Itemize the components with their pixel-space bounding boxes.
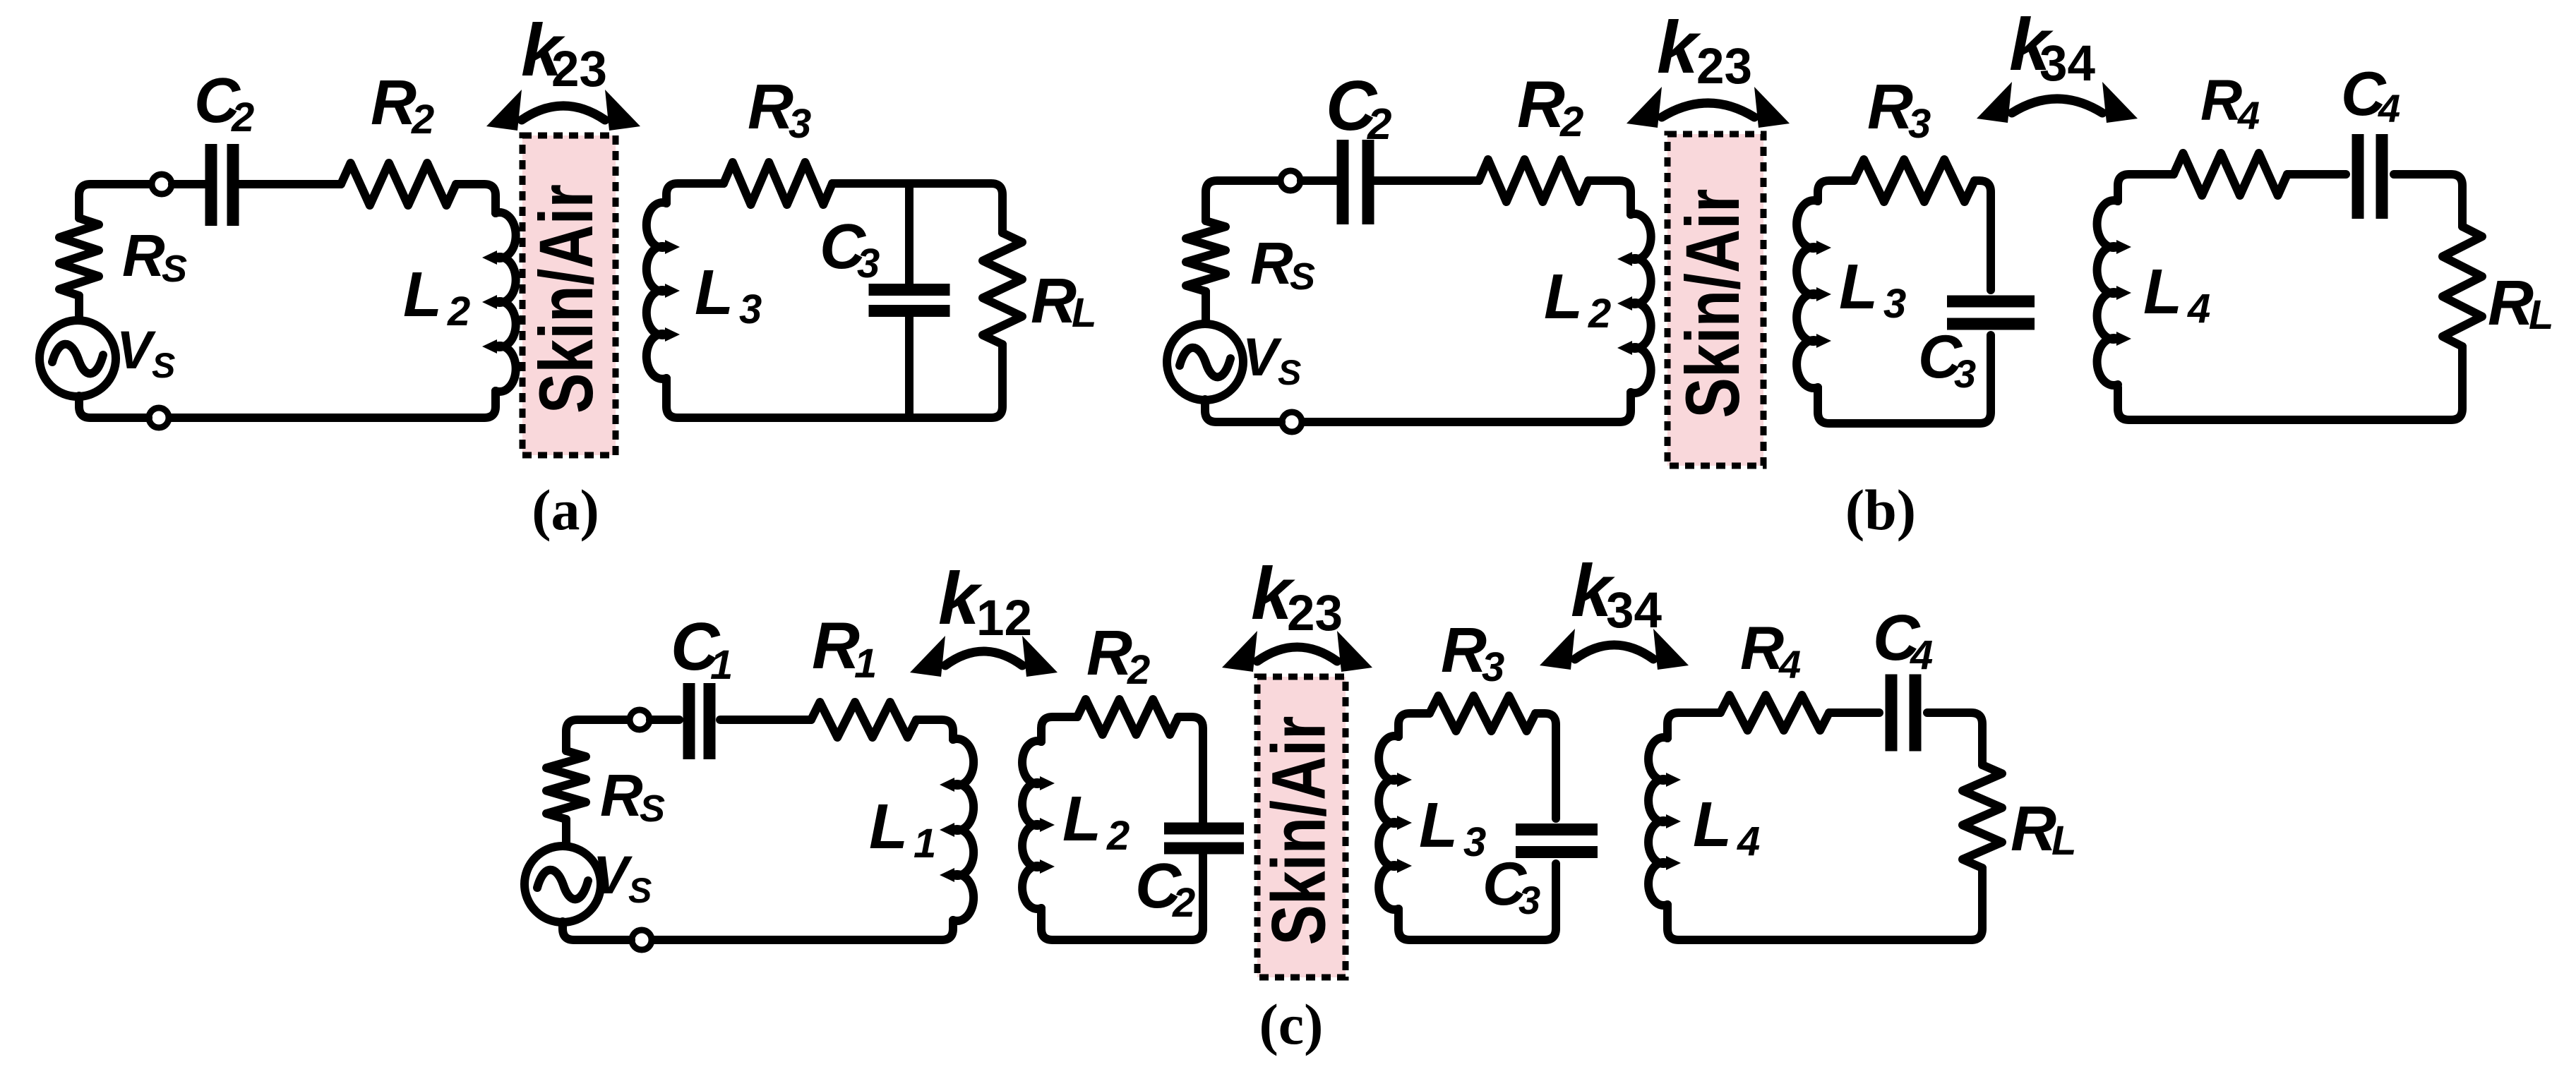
inductor L4 (c) bbox=[1648, 737, 1667, 905]
node terminal bottom (b) bbox=[1282, 412, 1302, 432]
source VS (c) bbox=[525, 846, 601, 922]
wire L4 to R4 (c) bbox=[1667, 713, 1720, 738]
svg-text:k: k bbox=[1657, 6, 1701, 89]
svg-text:Skin/Air: Skin/Air bbox=[524, 184, 609, 414]
svg-text:3: 3 bbox=[789, 101, 811, 147]
wire C4 to RL (c) bbox=[1927, 713, 1982, 765]
resistor R4 (b) bbox=[2174, 153, 2287, 195]
wire L2 to R2 (c) bbox=[1041, 717, 1077, 742]
svg-text:3: 3 bbox=[857, 241, 880, 286]
wire bottom terminal to Vs (a) bbox=[79, 396, 148, 418]
wire R3 to top-right corner (a) bbox=[832, 183, 1002, 233]
svg-text:1: 1 bbox=[913, 821, 936, 867]
svg-text:34: 34 bbox=[2039, 36, 2095, 92]
resistor R4 (c) bbox=[1720, 695, 1829, 730]
wire R3 to C3 (b) bbox=[1975, 181, 1991, 290]
resistor RL (a) bbox=[983, 233, 1022, 344]
svg-text:L: L bbox=[2051, 818, 2076, 864]
node terminal top (c) bbox=[630, 710, 649, 730]
wire C2 to R2 (b) bbox=[1373, 176, 1479, 185]
wire R4 to C4 (c) bbox=[1829, 708, 1879, 717]
resistor RS (b) bbox=[1186, 221, 1226, 291]
svg-text:R: R bbox=[1250, 230, 1293, 296]
capacitor C4 (b) bbox=[2358, 134, 2382, 219]
svg-text:23: 23 bbox=[1696, 39, 1752, 95]
svg-text:4: 4 bbox=[2378, 86, 2400, 131]
svg-text:4: 4 bbox=[1737, 819, 1760, 864]
svg-text:(c): (c) bbox=[1259, 992, 1323, 1056]
skin/air boundary (a) bbox=[522, 135, 616, 455]
svg-text:V: V bbox=[1242, 327, 1282, 387]
svg-text:R: R bbox=[812, 608, 860, 682]
wire L2 to bottom terminal (b) bbox=[1302, 392, 1631, 422]
svg-text:2: 2 bbox=[1106, 813, 1130, 859]
coupling k34 (b) bbox=[2012, 99, 2102, 113]
source VS (b) bbox=[1167, 324, 1243, 400]
inductor L4 (b) bbox=[2097, 200, 2118, 385]
svg-text:Skin/Air: Skin/Air bbox=[1670, 189, 1755, 418]
source VS (a) bbox=[40, 320, 116, 397]
wire R3 to C3 (c) bbox=[1535, 713, 1556, 819]
wire L1 to bottom terminal (c) bbox=[652, 920, 953, 940]
wire C2 to R2 (a) bbox=[239, 180, 341, 188]
wire bottom terminal to Vs (c) bbox=[563, 922, 631, 940]
wire R2 to L2 (a) bbox=[456, 184, 496, 213]
svg-text:4: 4 bbox=[1778, 642, 1801, 687]
wire terminal to C1 (c) bbox=[650, 716, 679, 724]
svg-text:R: R bbox=[748, 72, 793, 143]
svg-text:12: 12 bbox=[976, 591, 1032, 646]
inductor L1 (c) bbox=[953, 739, 974, 921]
coupling k34 (c) bbox=[1575, 645, 1653, 659]
wire loop c1 left (c) bbox=[566, 720, 629, 847]
wire C1 to R1 (c) bbox=[720, 716, 811, 724]
node terminal bottom (a) bbox=[149, 408, 169, 428]
svg-text:34: 34 bbox=[1606, 583, 1662, 639]
wire RL to bottom (c) bbox=[1667, 868, 1982, 940]
svg-text:4: 4 bbox=[2187, 286, 2210, 332]
inductor L2 (c) bbox=[1022, 741, 1041, 909]
node terminal top (a) bbox=[152, 174, 172, 194]
svg-text:S: S bbox=[640, 788, 665, 830]
resistor RS (a) bbox=[59, 218, 99, 296]
resistor R3 (c) bbox=[1430, 696, 1535, 731]
coupling k23 (c) bbox=[1257, 647, 1337, 661]
resistor R2 (b) bbox=[1479, 159, 1588, 202]
svg-text:R: R bbox=[122, 222, 165, 289]
svg-text:3: 3 bbox=[1908, 101, 1931, 147]
svg-text:L: L bbox=[869, 792, 908, 862]
coupling k23 (a) bbox=[522, 106, 605, 120]
svg-text:2: 2 bbox=[447, 289, 470, 334]
wire bottom terminal to Vs (b) bbox=[1205, 399, 1281, 422]
svg-text:R: R bbox=[1441, 615, 1487, 686]
capacitor C3 (b) bbox=[1947, 301, 2035, 324]
svg-text:S: S bbox=[152, 346, 175, 385]
resistor RS (c) bbox=[546, 751, 586, 819]
wire terminal to C2 (b) bbox=[1301, 176, 1338, 185]
wire L2 to bottom terminal (a) bbox=[169, 391, 496, 418]
resistor RL (c) bbox=[1963, 765, 2002, 868]
wire L4 to R4 (b) bbox=[2118, 174, 2174, 201]
svg-text:23: 23 bbox=[551, 42, 607, 97]
capacitor C1 (c) bbox=[689, 683, 709, 759]
svg-text:S: S bbox=[1278, 353, 1301, 392]
wire R4 to C4 (b) bbox=[2287, 170, 2346, 179]
wire R2 to L2 (b) bbox=[1588, 181, 1631, 215]
wire terminal to C2 (a) bbox=[172, 180, 205, 188]
resistor R3 (a) bbox=[724, 162, 832, 205]
svg-text:2: 2 bbox=[1127, 647, 1150, 693]
wire loop a1 left: Vs to top-left corner to terminal bbox=[79, 184, 151, 322]
svg-text:3: 3 bbox=[739, 286, 762, 332]
svg-text:R: R bbox=[1517, 67, 1565, 141]
svg-text:Skin/Air: Skin/Air bbox=[1256, 716, 1341, 946]
wire L3 to R3 (b) bbox=[1818, 181, 1854, 201]
capacitor C3 branch bottom (a) bbox=[905, 316, 913, 418]
resistor R1 (c) bbox=[811, 702, 916, 737]
coupling k12 (c) bbox=[945, 651, 1022, 665]
svg-text:(b): (b) bbox=[1845, 478, 1916, 542]
wire C2 to bottom (c) bbox=[1041, 853, 1203, 940]
svg-text:R: R bbox=[2200, 68, 2242, 133]
svg-text:1: 1 bbox=[854, 641, 877, 687]
svg-text:2: 2 bbox=[411, 97, 434, 143]
resistor R2 (a) bbox=[341, 163, 456, 205]
wire L3 to R3 (a) bbox=[666, 183, 724, 203]
svg-text:4: 4 bbox=[1910, 632, 1933, 678]
inductor L3 (c) bbox=[1379, 736, 1398, 910]
svg-text:R: R bbox=[371, 68, 417, 138]
svg-text:(a): (a) bbox=[532, 478, 599, 542]
svg-text:S: S bbox=[628, 871, 652, 910]
svg-text:R: R bbox=[600, 762, 643, 828]
svg-text:2: 2 bbox=[1172, 880, 1195, 926]
svg-text:L: L bbox=[2143, 257, 2182, 327]
svg-text:S: S bbox=[1290, 255, 1315, 298]
svg-text:R: R bbox=[2488, 268, 2534, 339]
wire L3 to R3 (c) bbox=[1398, 713, 1430, 737]
svg-text:2: 2 bbox=[1367, 100, 1391, 149]
skin/air boundary (b) bbox=[1667, 134, 1763, 466]
resistor R3 (b) bbox=[1854, 159, 1975, 202]
svg-text:2: 2 bbox=[231, 95, 254, 140]
svg-text:2: 2 bbox=[1588, 291, 1611, 337]
svg-text:L: L bbox=[1839, 252, 1878, 322]
svg-text:1: 1 bbox=[710, 642, 733, 688]
svg-text:4: 4 bbox=[2237, 93, 2260, 138]
resistor R2 (c) bbox=[1077, 699, 1178, 735]
capacitor C3 branch top (a) bbox=[905, 183, 913, 284]
coupling k23 (b) bbox=[1662, 103, 1754, 117]
inductor L2 (a) bbox=[496, 212, 516, 392]
capacitor C3 (a) bbox=[869, 290, 950, 311]
svg-text:V: V bbox=[116, 320, 156, 380]
svg-text:L: L bbox=[1693, 790, 1732, 860]
inductor L3 (b) bbox=[1797, 200, 1818, 388]
node terminal bottom (c) bbox=[632, 930, 652, 950]
wire RL to bottom (b) bbox=[2118, 346, 2462, 420]
svg-text:3: 3 bbox=[1954, 351, 1976, 396]
svg-text:R: R bbox=[1740, 615, 1784, 682]
svg-text:L: L bbox=[2529, 292, 2553, 338]
svg-text:S: S bbox=[162, 248, 187, 290]
svg-text:R: R bbox=[2011, 794, 2056, 864]
svg-text:2: 2 bbox=[1559, 98, 1583, 145]
svg-text:3: 3 bbox=[1482, 644, 1504, 690]
svg-text:L: L bbox=[1544, 262, 1583, 332]
capacitor C4 (c) bbox=[1891, 675, 1915, 752]
wire loop b1 left (b) bbox=[1206, 181, 1280, 325]
node terminal top (b) bbox=[1281, 171, 1300, 191]
resistor RL (b) bbox=[2443, 227, 2482, 346]
wire C3 to bottom (c) bbox=[1398, 864, 1556, 940]
svg-text:L: L bbox=[1072, 290, 1096, 336]
capacitor C3 (c) bbox=[1516, 830, 1598, 852]
svg-text:23: 23 bbox=[1287, 586, 1343, 641]
svg-text:3: 3 bbox=[1518, 878, 1540, 922]
svg-text:V: V bbox=[593, 845, 633, 905]
svg-text:L: L bbox=[1062, 784, 1101, 855]
inductor L2 (b) bbox=[1631, 214, 1651, 393]
wire R2 to C2 (c) bbox=[1178, 717, 1203, 823]
capacitor C2 (c) bbox=[1164, 828, 1244, 848]
svg-text:L: L bbox=[403, 260, 442, 330]
wire RL to bottom (a) bbox=[666, 344, 1002, 418]
svg-text:L: L bbox=[1419, 790, 1458, 861]
wire C4 to RL (b) bbox=[2394, 174, 2462, 227]
inductor L3 (a) bbox=[647, 203, 666, 379]
capacitor C2 (a) bbox=[211, 144, 233, 226]
svg-text:L: L bbox=[695, 258, 733, 328]
skin/air boundary (c) bbox=[1257, 677, 1346, 977]
wire C3 to bottom (b) bbox=[1818, 335, 1991, 423]
svg-text:R: R bbox=[1086, 618, 1132, 689]
svg-text:R: R bbox=[1031, 266, 1077, 337]
svg-text:R: R bbox=[1867, 72, 1913, 143]
svg-text:3: 3 bbox=[1883, 281, 1906, 327]
wire R1 to L1 (c) bbox=[916, 720, 953, 740]
capacitor C2 (b) bbox=[1343, 140, 1368, 224]
